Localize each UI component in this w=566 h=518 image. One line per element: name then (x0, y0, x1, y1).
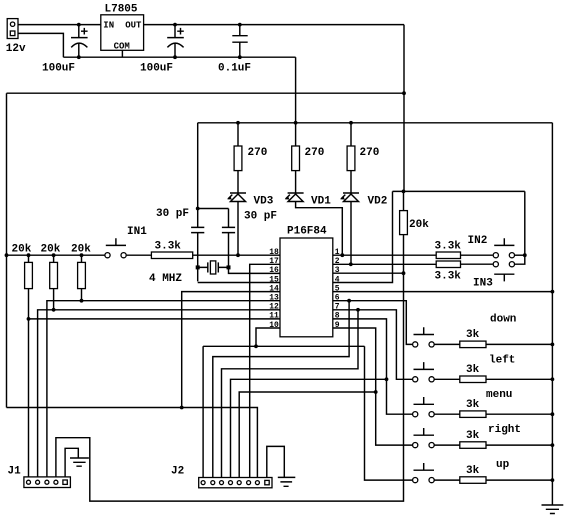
wire menu net to J2 pin4 (231, 379, 387, 480)
op-amp U1 P16F84 (280, 226, 333, 337)
wire left row to ground edge (434, 378, 552, 380)
wire pin7 to left button (333, 310, 412, 380)
svg-text:18: 18 (269, 248, 279, 257)
wire pin4 MCLR riser (333, 191, 393, 282)
pin 10 (269, 321, 279, 330)
svg-text:VD2: VD2 (368, 196, 388, 208)
svg-text:100uF: 100uF (140, 63, 173, 75)
svg-text:9: 9 (335, 321, 340, 330)
node dots pull-up rail (5, 253, 84, 257)
node dots pin18 row (236, 253, 353, 266)
wire pin6 to down button (333, 301, 412, 345)
pin 18 (269, 248, 279, 257)
svg-text:16: 16 (269, 266, 279, 275)
svg-text:100uF: 100uF (42, 63, 75, 75)
wire right ground edge x=552.4 (551, 123, 553, 505)
switch left button (413, 355, 516, 382)
svg-text:2: 2 (335, 257, 340, 266)
wire menu row to ground edge (434, 413, 552, 415)
wire pin14 VDD drop to +5 rail (182, 292, 280, 408)
wire left +5V box edge (6, 93, 8, 407)
pin 4 (335, 275, 340, 284)
connector J2 (171, 466, 272, 488)
svg-text:12: 12 (269, 303, 279, 312)
resistor R11 3k (460, 329, 486, 348)
pin 8 (335, 312, 340, 321)
pin 16 (269, 266, 279, 275)
ground symbol near J2 (267, 446, 296, 486)
node dots pins 6 7 (347, 299, 360, 312)
svg-text:17: 17 (269, 257, 279, 266)
wire pin9 branch to J2 pin5 (239, 392, 376, 480)
switch IN1 (105, 226, 147, 258)
led VD3 (227, 193, 274, 255)
svg-text:1: 1 (335, 248, 340, 257)
wire net RB4 J2p1 to up-button riser (203, 345, 364, 347)
svg-text:5: 5 (335, 284, 340, 293)
wire pin15 to crystal left chain (198, 282, 280, 284)
resistor R1 270 (234, 123, 267, 193)
node dots top rails (77, 23, 406, 95)
pin 14 (269, 284, 279, 293)
pin 2 (335, 257, 340, 266)
wire up row to ground edge (434, 479, 552, 481)
node dots bus junctions (180, 344, 389, 409)
svg-text:IN: IN (103, 20, 114, 30)
resistor R2 270 (292, 123, 325, 193)
wire pin8 to menu button (333, 319, 412, 414)
wire IN2 riser x=524.8 (515, 191, 525, 264)
switch down button (413, 313, 517, 347)
svg-text:3k: 3k (466, 399, 480, 411)
led VD2 (340, 193, 387, 264)
wire IN2 switch to riser (515, 254, 525, 256)
svg-text:up: up (496, 459, 510, 471)
svg-text:right: right (488, 424, 521, 436)
svg-text:3k: 3k (466, 430, 480, 442)
svg-text:left: left (489, 355, 515, 367)
svg-text:VD3: VD3 (254, 196, 274, 208)
node dots +5 node y=191 (402, 190, 527, 276)
wire J2 pin1 drop (202, 346, 204, 480)
connector J1 (8, 466, 71, 488)
svg-text:20k: 20k (41, 244, 61, 256)
wire ground rail under regulator (63, 56, 295, 58)
wire ground top rail y=122.8 (198, 122, 553, 124)
wire 20k J1p4 riser x=403.5 (56, 191, 404, 501)
resistor R7 20k (71, 244, 91, 301)
svg-text:13: 13 (269, 294, 279, 303)
pin 15 (269, 275, 279, 284)
svg-text:270: 270 (305, 147, 325, 159)
svg-text:7: 7 (335, 303, 340, 312)
pin 9 (335, 321, 340, 330)
ground symbol bottom right (542, 505, 564, 514)
svg-text:11: 11 (269, 312, 279, 321)
node dots ground top rail (236, 121, 353, 125)
pin 1 (335, 248, 340, 257)
wire pin5 VSS to ground edge (333, 291, 552, 293)
switch IN3 (473, 262, 515, 290)
svg-text:6: 6 (335, 294, 340, 303)
svg-text:15: 15 (269, 275, 279, 284)
pin 13 (269, 294, 279, 303)
capacitor C5 30pF right (198, 209, 277, 268)
pin 11 (269, 312, 279, 321)
wire pin2 to IN3 resistor (333, 263, 436, 265)
switch right button (413, 424, 521, 448)
svg-text:0.1uF: 0.1uF (218, 63, 251, 75)
svg-text:L7805: L7805 (105, 4, 138, 16)
wire IN1 to 3.3k to pin18 (127, 254, 280, 256)
svg-text:3.3k: 3.3k (155, 240, 182, 252)
wire down row to ground edge (434, 343, 552, 345)
wire +12V from connector to regulator IN (18, 24, 101, 26)
svg-text:IN1: IN1 (127, 226, 147, 238)
wire +5V branch y=92 to left box (7, 92, 405, 94)
pin 17 (269, 257, 279, 266)
svg-text:down: down (490, 313, 516, 325)
svg-text:4: 4 (335, 275, 340, 284)
switch menu button (413, 389, 513, 417)
wire +5V riser x=404 down to node (403, 25, 405, 192)
wire pin10 drop (256, 328, 280, 346)
svg-text:14: 14 (269, 284, 279, 293)
switch IN2 (468, 235, 515, 258)
node dots oscillator (196, 207, 231, 270)
resistor R9 3.3k (IN2) (435, 241, 462, 259)
wire IN2 row resistor to switch (461, 254, 493, 256)
svg-text:VD1: VD1 (311, 196, 331, 208)
crystal X1 4MHZ (149, 261, 229, 285)
svg-text:3k: 3k (466, 329, 480, 341)
svg-text:OUT: OUT (125, 20, 142, 30)
resistor R14 3k (460, 430, 486, 449)
pin 12 (269, 303, 279, 312)
resistor R4 3.3k (IN1) (151, 240, 192, 258)
wire 12v minus lead down to ground rail (18, 33, 63, 57)
wire pin6 branch to J2 pin2 (213, 301, 349, 481)
pin 5 (335, 284, 340, 293)
switch up button (413, 459, 510, 483)
wire pin17 to J2 pin6 (250, 264, 280, 480)
ground symbol near J1 (65, 448, 89, 477)
svg-text:J2: J2 (171, 466, 184, 478)
wire pin13 to J1 pin3 (47, 301, 280, 481)
wire pin16 to crystal right node (229, 267, 281, 273)
resistor R10 3.3k (IN3) (435, 261, 462, 283)
svg-text:J1: J1 (8, 466, 22, 478)
pin 7 (335, 303, 340, 312)
node dots right ground edge (551, 290, 555, 482)
svg-text:IN2: IN2 (468, 235, 488, 247)
svg-text:30 pF: 30 pF (156, 208, 189, 220)
wire +5V rail from regulator OUT to right riser (144, 24, 404, 26)
wire IN3 row resistor to switch (461, 263, 493, 265)
svg-text:IN3: IN3 (473, 277, 493, 289)
svg-text:3: 3 (335, 266, 340, 275)
svg-text:20k: 20k (409, 219, 429, 231)
wire pin1 to IN2 resistor (333, 254, 436, 256)
capacitor C1 100uF (42, 25, 88, 75)
wire pin9 to right button (333, 328, 412, 445)
resistor R3 270 (347, 123, 379, 193)
resistor R12 3k (460, 364, 486, 383)
svg-text:12v: 12v (6, 43, 26, 55)
svg-text:10: 10 (269, 321, 279, 330)
capacitor C3 0.1uF (218, 25, 251, 75)
regulator U2 L7805 (101, 4, 144, 58)
resistor R15 3k (460, 465, 486, 484)
resistor R13 3k (460, 399, 486, 418)
node dots left 20k junctions (27, 299, 84, 321)
pin 3 (335, 266, 340, 275)
pin 6 (335, 294, 340, 303)
resistor R5 20k (12, 244, 33, 319)
svg-text:3k: 3k (466, 465, 480, 477)
wire pin11 to J1 pin1 (29, 319, 281, 481)
resistor R6 20k (41, 244, 61, 310)
wire +5V bottom rail to J2 pin7 (7, 408, 258, 481)
capacitor C2 100uF (140, 25, 184, 75)
wire up-button riser and row (365, 346, 413, 480)
connector J3 12v input (6, 19, 26, 56)
svg-text:COM: COM (114, 42, 130, 52)
wire pin3 to 20k node (333, 272, 404, 274)
svg-text:270: 270 (360, 147, 380, 159)
wire pull-up rail y=255.2 to IN1 (7, 254, 105, 256)
svg-text:30 pF: 30 pF (244, 211, 277, 223)
wire pin7 branch to J2 pin3 (222, 310, 359, 481)
resistor R8 20k pull-up (400, 211, 430, 235)
svg-text:3k: 3k (466, 364, 480, 376)
capacitor C4 30pF left (156, 123, 204, 282)
wire right row to ground edge (434, 444, 552, 446)
svg-text:270: 270 (248, 147, 268, 159)
svg-text:menu: menu (486, 389, 512, 401)
svg-text:3.3k: 3.3k (435, 271, 462, 283)
svg-text:4 MHZ: 4 MHZ (149, 273, 182, 285)
svg-text:8: 8 (335, 312, 340, 321)
wire pin12 to J1 pin2 (38, 310, 280, 481)
wire ground riser x=295.6 (295, 57, 297, 123)
led VD1 (285, 193, 343, 255)
svg-text:P16F84: P16F84 (287, 226, 327, 238)
wire +5 line y=191.4 to IN2 riser (393, 190, 525, 192)
svg-text:3.3k: 3.3k (435, 241, 462, 253)
